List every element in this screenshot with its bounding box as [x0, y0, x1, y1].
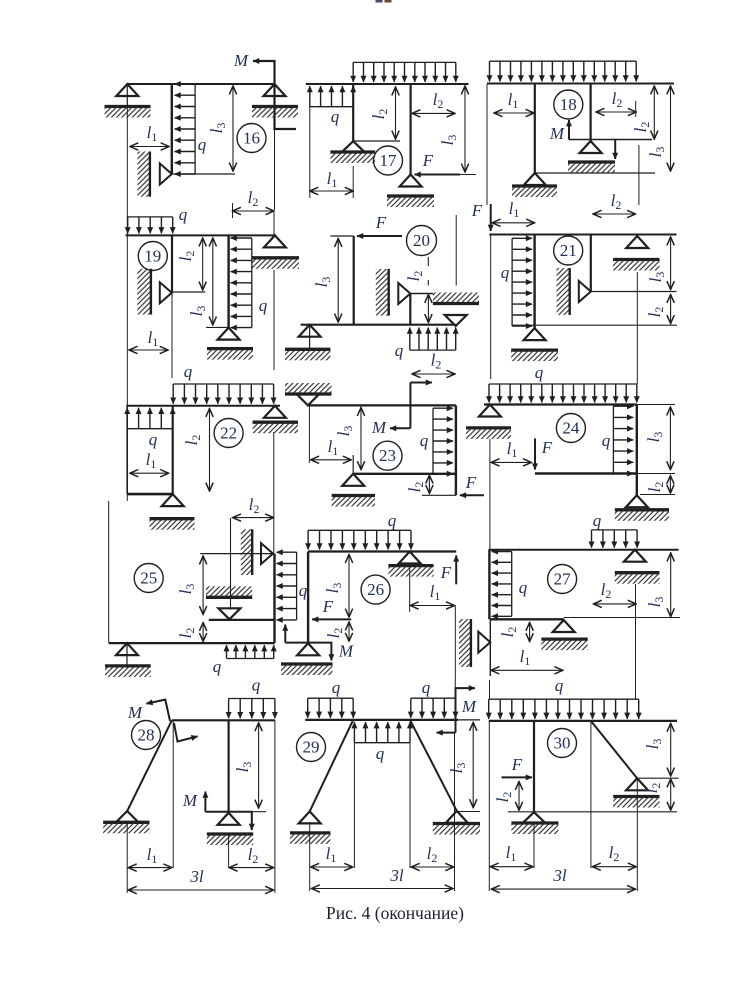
extension line right 21	[636, 272, 638, 384]
dimension l2 16	[233, 210, 275, 212]
svg-text:q: q	[299, 581, 308, 600]
ground short 18	[568, 160, 615, 163]
pinned support tall 18	[524, 173, 546, 185]
dimension l3 20	[337, 239, 339, 323]
svg-text:F: F	[465, 473, 477, 492]
vertical member 1 21	[533, 235, 535, 329]
svg-text:q: q	[332, 678, 341, 697]
ground left 28	[103, 821, 149, 824]
circled 27	[548, 565, 577, 594]
circled 25	[134, 564, 163, 593]
dimension l1 22	[130, 472, 169, 474]
beam 29	[305, 719, 458, 721]
dimension l2 18	[596, 111, 636, 113]
moment M arrow 16	[253, 61, 296, 129]
reference line y553 25	[200, 553, 274, 555]
dimension l1 18	[494, 112, 534, 114]
dimension l1 27	[491, 669, 563, 671]
circled 22	[214, 419, 243, 448]
distributed load q right 29	[411, 697, 456, 699]
vertical member 1 19	[171, 235, 173, 292]
beam 28	[172, 719, 275, 721]
ground bottom 21	[511, 348, 558, 351]
svg-text:F: F	[471, 201, 483, 220]
pinned support right 21	[626, 236, 648, 248]
svg-text:q: q	[213, 657, 222, 676]
extension line right 16	[274, 129, 276, 210]
beam 24 bottom	[535, 472, 637, 474]
force F arrow up 26	[455, 555, 457, 584]
ground right 29	[433, 822, 480, 825]
extension line l2 to support 25	[230, 518, 232, 609]
circled 18	[554, 90, 583, 119]
extension line right 19	[273, 212, 275, 235]
svg-text:M: M	[338, 642, 354, 661]
extension tick l2 18	[635, 101, 637, 117]
beam 16 top member	[127, 83, 275, 85]
svg-text:M: M	[549, 124, 565, 143]
dimension l1 30	[490, 866, 533, 868]
svg-text:q: q	[252, 676, 261, 695]
bottom member 22	[127, 493, 173, 496]
dimension l3 17	[464, 86, 466, 172]
pinned support left 25	[116, 643, 138, 655]
member extension down 27	[489, 619, 491, 676]
svg-text:F: F	[511, 755, 523, 774]
inverted ground 23	[285, 392, 332, 395]
ground left 16	[105, 105, 151, 108]
svg-text:16: 16	[243, 129, 260, 148]
svg-text:q: q	[259, 296, 268, 315]
inverted roller support 25	[218, 608, 240, 619]
pinned support bottom 21	[524, 328, 546, 340]
svg-text:q: q	[519, 578, 528, 597]
vertical member 2 21	[590, 235, 592, 292]
oblique member right 29	[410, 720, 457, 811]
circled 20	[407, 226, 437, 256]
oblique member 28	[127, 720, 172, 811]
force F arrow 17	[415, 174, 461, 176]
distributed load q up left 17	[310, 106, 353, 108]
dimension l1 17	[310, 190, 353, 192]
svg-text:q: q	[422, 678, 431, 697]
svg-text:18: 18	[560, 95, 577, 114]
svg-text:F: F	[541, 438, 553, 457]
circled 17	[374, 146, 403, 175]
vertical member 20	[353, 236, 355, 325]
dashed extension l2 20	[427, 257, 429, 266]
support mast 25	[126, 643, 128, 666]
reference line y292 19	[171, 291, 206, 293]
dimension l2 28	[229, 867, 273, 869]
dimension 3l 30	[491, 888, 635, 890]
circled 30	[548, 729, 577, 758]
pinned support bottom 26	[297, 643, 319, 655]
svg-text:3l: 3l	[552, 866, 567, 885]
extension line left 17	[309, 107, 311, 198]
reference line side support 20	[410, 293, 433, 295]
pinned support mid 27	[553, 620, 575, 632]
moment M mid arrows 28	[204, 792, 206, 812]
pinned support mid 30	[523, 812, 545, 823]
extension line left bottom 28	[126, 822, 128, 893]
dimension l2 small 26	[348, 622, 350, 641]
svg-text:17: 17	[380, 151, 398, 170]
wall hatch 19	[137, 269, 151, 315]
svg-text:24: 24	[562, 419, 580, 438]
svg-text:M: M	[127, 703, 143, 722]
ground right 19	[252, 256, 299, 259]
reference line F 20	[330, 235, 353, 237]
distributed load q up 22	[127, 428, 173, 430]
pinned support lower 17	[400, 175, 422, 187]
circled 28	[132, 721, 161, 750]
pinned support right 16	[264, 84, 286, 96]
extension line right 28	[274, 720, 276, 893]
side roller support 20	[398, 283, 410, 304]
ground mid 28	[207, 832, 253, 835]
ground right 22	[253, 421, 298, 424]
dimension l2 small 27	[529, 622, 531, 641]
dimension l1 21	[492, 222, 534, 224]
extension line left column	[126, 107, 128, 502]
left member 27	[488, 550, 490, 620]
svg-text:q: q	[149, 430, 158, 449]
force F arrow 20	[357, 235, 402, 237]
wall hatch 27	[459, 619, 471, 667]
dimension l2 bottom 20	[412, 373, 455, 375]
distributed load q down 17	[353, 61, 456, 63]
extension line left 18	[486, 84, 488, 205]
svg-text:3l: 3l	[189, 867, 204, 886]
inverted ground 20	[433, 302, 479, 305]
svg-text:F: F	[322, 597, 334, 616]
oblique member left 29	[310, 720, 354, 812]
svg-text:M: M	[182, 791, 198, 810]
reference lines right 30	[639, 720, 677, 722]
extension tick l2 left 16	[232, 203, 234, 218]
svg-text:27: 27	[554, 570, 572, 589]
dimension l3 21	[670, 237, 672, 290]
svg-text:20: 20	[413, 231, 430, 250]
svg-text:M: M	[233, 51, 249, 70]
svg-text:F: F	[375, 213, 387, 232]
beam 21	[489, 234, 676, 236]
floating inverted ground 25	[206, 596, 252, 599]
dimension l2 small 25	[202, 623, 204, 642]
circled 19	[138, 242, 167, 271]
svg-text:q: q	[198, 135, 207, 154]
dimension l3 25	[202, 556, 204, 615]
vertical member 25	[273, 554, 275, 644]
extension lines 29	[309, 822, 311, 891]
svg-text:21: 21	[560, 241, 577, 260]
svg-text:Рис. 4 (окончание): Рис. 4 (окончание)	[326, 903, 464, 923]
extension line mid 17	[352, 166, 354, 198]
distributed load q down 27	[592, 529, 638, 531]
pinned support right 19	[264, 235, 286, 247]
svg-text:q: q	[388, 511, 397, 530]
dimension l2 horizontal 17	[412, 112, 455, 114]
svg-text:M: M	[461, 697, 477, 716]
ground bottom 26	[281, 662, 333, 665]
svg-text:M: M	[371, 418, 387, 437]
dimension l1 26	[410, 605, 454, 607]
pinned support left 20	[299, 325, 321, 337]
inverted roller support 23	[297, 394, 319, 405]
extension line right 22	[273, 432, 275, 554]
vertical member 2 17	[410, 84, 412, 175]
dimension l3 24	[669, 407, 671, 470]
dimension l2 vertical 18	[653, 86, 655, 139]
oblique member 30	[591, 721, 637, 778]
reference line y141 18	[569, 139, 652, 141]
dimension l2 vertical 22	[209, 409, 211, 492]
pinned support left 24	[479, 405, 501, 417]
ground left 24	[466, 426, 511, 429]
dimension 3l 28	[128, 889, 273, 891]
distributed load q up 20	[410, 349, 456, 351]
dimension l1 24	[491, 461, 531, 463]
dimension l2 right 30	[670, 779, 672, 810]
dimension l2 force 30	[518, 782, 520, 811]
dimension l2 29	[411, 866, 453, 868]
dimension l1 23	[311, 459, 352, 461]
svg-text:19: 19	[144, 247, 161, 266]
beam 20 bottom member	[301, 324, 456, 326]
dimension l2 top 21	[593, 213, 635, 215]
vertical member 2 18	[589, 84, 591, 142]
distributed load q 18	[490, 60, 637, 62]
reference line l3 bottom 29	[458, 811, 480, 813]
extension line right 20	[455, 215, 457, 286]
moment M arrows 18	[568, 120, 570, 140]
vertical member 2 19	[227, 235, 229, 327]
pinned support right 29	[446, 811, 468, 823]
force F arrow 30	[502, 776, 533, 778]
dimension l2 right 21	[670, 295, 672, 324]
svg-text:q: q	[184, 362, 193, 381]
distributed load q middle up 29	[354, 742, 410, 744]
reference line bottom 21	[513, 324, 677, 326]
pinned support mid 28	[218, 813, 240, 825]
dimension l3 23	[360, 408, 362, 470]
reference line l2 bottom 23	[422, 494, 456, 496]
side roller support 16	[160, 164, 172, 185]
vertical extension mid 30	[590, 721, 592, 868]
svg-text:29: 29	[303, 738, 320, 757]
upper member stub 20	[409, 294, 411, 325]
ground tall 18	[512, 184, 557, 187]
extension line l2 18	[638, 145, 640, 205]
svg-text:q: q	[555, 676, 564, 695]
dimension l2 vertical 19	[202, 238, 204, 290]
distributed load q side 25	[296, 552, 298, 620]
beam 23 top	[308, 404, 456, 406]
ground right 27	[615, 571, 660, 574]
distributed load q on member 23	[432, 408, 434, 474]
pinned support right 27	[624, 550, 646, 562]
reference line y811 30	[508, 811, 677, 813]
beam 23 bottom	[353, 473, 456, 475]
distributed load q down 30	[489, 698, 639, 700]
member stub 23	[352, 455, 354, 474]
dimension l1 19	[129, 349, 168, 351]
svg-text:30: 30	[554, 734, 571, 753]
distributed load q on member 27	[511, 552, 513, 617]
vertical member 1 17	[352, 84, 354, 141]
dimension l2 mid 27	[593, 603, 636, 605]
distributed load q down 24	[489, 383, 637, 385]
dimension l3 28	[258, 723, 260, 808]
support mast 20	[309, 325, 311, 350]
svg-text:3l: 3l	[389, 866, 404, 885]
svg-text:F: F	[422, 151, 434, 170]
extension pin down 26	[409, 566, 411, 612]
bottom member 27	[490, 618, 563, 620]
ground left 29	[290, 831, 330, 834]
pinned support bottom 22	[162, 494, 184, 506]
svg-text:22: 22	[220, 424, 237, 443]
distributed load q on member 2 19	[251, 238, 253, 328]
beam 17 top member	[306, 83, 469, 85]
horizontal member 25	[209, 619, 275, 621]
beam 18 top member	[487, 83, 674, 85]
svg-text:26: 26	[367, 580, 384, 599]
ground bottom 22	[150, 517, 195, 520]
pinned support left 29	[299, 811, 321, 823]
extension line mid 27	[635, 584, 637, 618]
support mast line 16	[126, 84, 128, 107]
side roller support 25	[261, 543, 273, 564]
moment M arrows 28	[146, 700, 170, 721]
ground right 21	[613, 258, 660, 261]
wall hatch 16	[138, 152, 150, 197]
extension lines 30	[488, 721, 490, 891]
distributed load q on member 21	[511, 238, 513, 326]
distributed load down 19	[128, 216, 173, 218]
svg-text:q: q	[535, 363, 544, 382]
pinned support short 18	[580, 141, 602, 153]
beam 22	[126, 405, 280, 407]
vertical member 30	[533, 721, 535, 813]
ground lower 17	[387, 194, 434, 197]
dimension l2 bottom 22	[233, 517, 274, 519]
left frame member 22	[126, 406, 128, 494]
page number remnant	[376, 0, 383, 3]
vertical member 16	[171, 84, 173, 174]
dimension l1 29	[311, 866, 353, 868]
svg-text:q: q	[331, 107, 340, 126]
ground left 25	[105, 664, 151, 667]
extension line left 21	[490, 235, 492, 380]
distributed load q down 28	[229, 698, 275, 700]
ground mid 26	[388, 564, 433, 567]
force F arrow down 21	[490, 204, 492, 231]
pinned support mid 26	[399, 552, 421, 564]
ground right 30	[613, 795, 659, 798]
ground mid 27	[541, 637, 587, 640]
distributed load q on member 24	[612, 406, 614, 473]
pinned support mid 17	[342, 141, 364, 152]
pinned support left 16	[116, 84, 138, 96]
reference line l3 bottom 17	[456, 174, 476, 176]
extension line mid bottom 28	[228, 834, 230, 868]
beam 25 bottom	[109, 642, 275, 644]
moment M arrows 26	[284, 625, 286, 643]
reference line bottom 27	[564, 617, 680, 619]
ground bottom 19	[207, 347, 253, 350]
beam 26	[308, 550, 456, 552]
wall hatch 20	[376, 269, 389, 316]
circled 29	[297, 733, 326, 762]
force F arrow 26	[312, 618, 351, 620]
vertical member right 24	[636, 405, 638, 496]
vertical member 22	[172, 406, 174, 494]
distributed load q left 29	[308, 697, 354, 699]
moment M arrows 29	[456, 688, 476, 733]
pinned support right 22	[264, 406, 286, 418]
distributed load q down 22	[173, 383, 273, 385]
ground mid 17	[330, 150, 375, 153]
svg-text:F: F	[440, 563, 452, 582]
reference line y173 18	[535, 172, 655, 174]
left member 26	[307, 552, 309, 644]
moment M arrows 23	[409, 383, 411, 429]
pinned support bottom 19	[218, 328, 240, 340]
side roller support 21	[579, 281, 591, 302]
extension line member1 down 19	[171, 292, 173, 378]
side roller support 27	[478, 632, 490, 653]
circled 24	[556, 414, 585, 443]
dimension l2 right 24	[669, 476, 671, 494]
dimension l3 27	[670, 553, 672, 617]
reference lines right 24	[637, 404, 675, 406]
ground right 16	[252, 105, 298, 108]
wall hatch 21	[557, 268, 570, 315]
dimension l1 28	[128, 867, 172, 869]
distributed load q up 25	[227, 658, 274, 660]
reference line l2 17	[354, 140, 400, 142]
wall hatch 25	[241, 529, 252, 575]
beam 24	[484, 403, 637, 405]
ground left 20	[285, 348, 330, 351]
extension line left 24	[489, 439, 491, 550]
dimension l3 30	[670, 723, 672, 776]
ground bottom 23	[332, 494, 375, 497]
svg-text:q: q	[593, 511, 602, 530]
svg-text:q: q	[420, 431, 429, 450]
extension below apex 23	[308, 405, 310, 463]
extension line left 25	[108, 501, 110, 643]
circled 23	[373, 441, 402, 470]
circled 16	[237, 124, 266, 153]
vertical member right 23	[455, 405, 457, 495]
circled 26	[361, 575, 390, 604]
svg-text:q: q	[179, 205, 188, 224]
pinned support bottom 24	[626, 495, 648, 507]
force F arrow down 24	[534, 438, 536, 469]
svg-text:28: 28	[138, 726, 155, 745]
svg-text:25: 25	[140, 569, 157, 588]
dimension l3 vertical 19	[212, 238, 214, 325]
svg-text:q: q	[376, 744, 385, 763]
dimension l2 bottom 30	[592, 866, 636, 868]
extension line right 26	[454, 606, 456, 689]
pinned support bottom 23	[342, 474, 364, 486]
ground bottom 24	[615, 508, 669, 511]
dimension l1 16	[130, 146, 169, 148]
